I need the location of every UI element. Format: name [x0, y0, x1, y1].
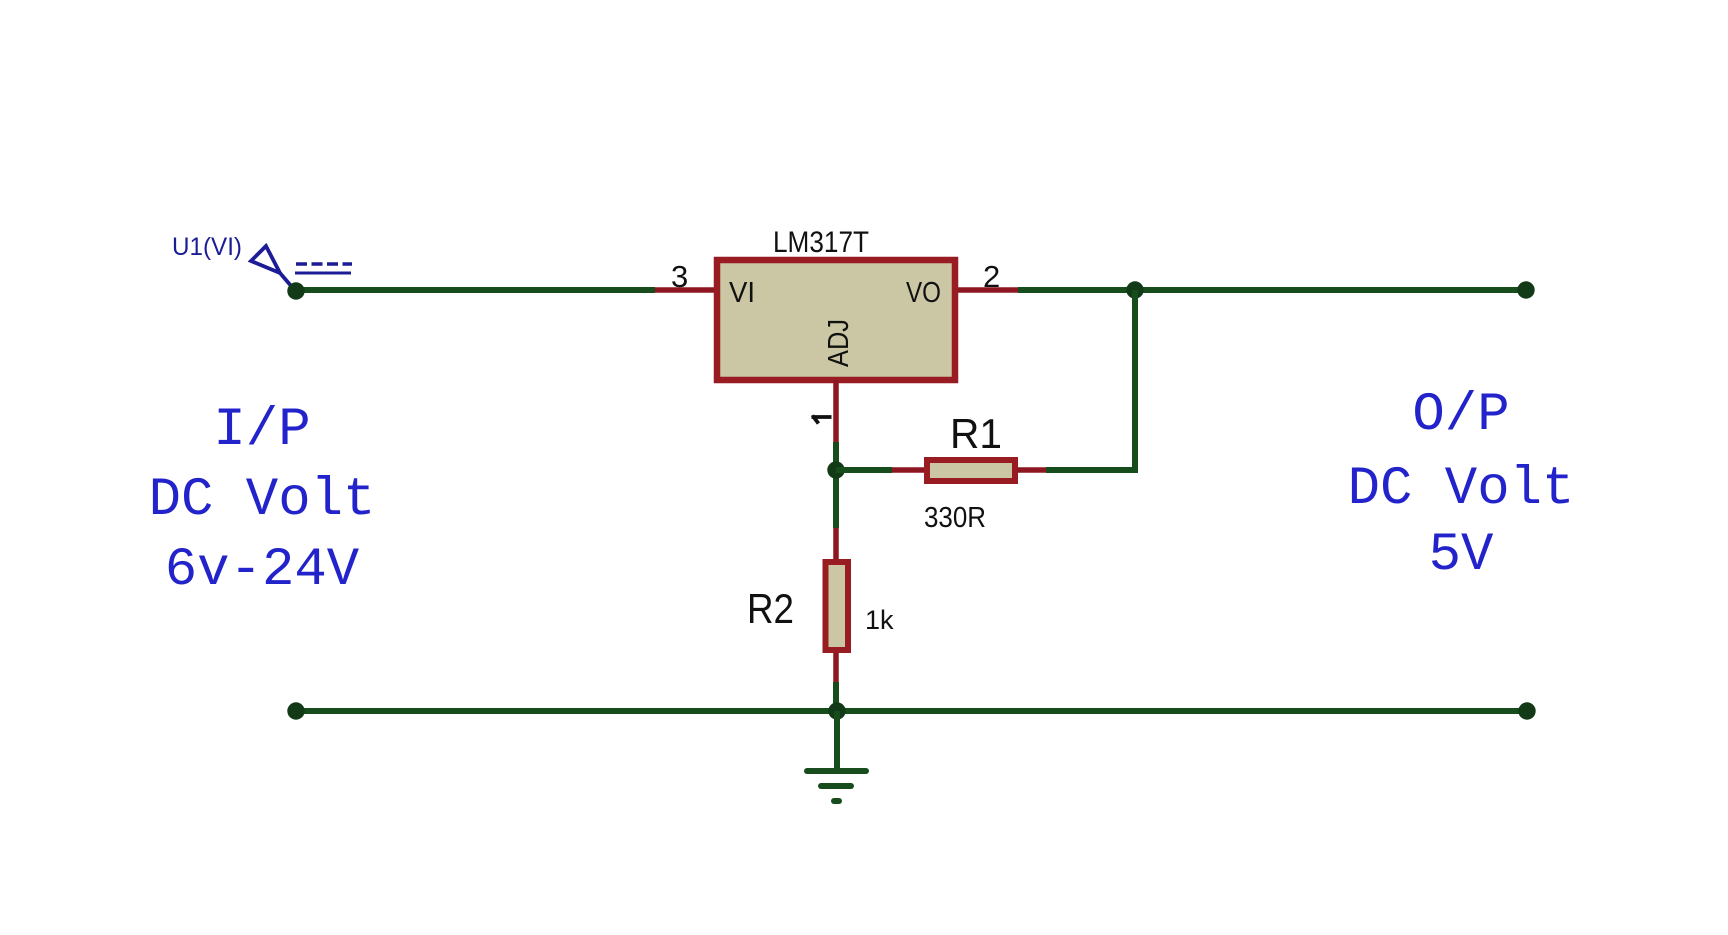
- pin: R2 top stub: [833, 528, 839, 562]
- svg-text:R2: R2: [747, 585, 794, 632]
- dc source symbol solid line: [295, 272, 351, 275]
- ground symbol: [807, 711, 866, 801]
- dc source symbol dashed line: [296, 262, 352, 265]
- pin number 1 (rotated): [812, 416, 832, 424]
- pin 1 ADJ stub: [833, 380, 839, 442]
- svg-text:VI: VI: [729, 277, 755, 309]
- resistor R1 right pin: [1017, 467, 1046, 473]
- pin: R2 bottom stub: [833, 653, 839, 682]
- node: bottom-right terminal dot: [1518, 702, 1535, 719]
- node: input terminal dot: [287, 282, 304, 299]
- svg-text:2: 2: [983, 259, 1000, 294]
- pin 3 stub: [655, 287, 714, 293]
- node: junction at VO column: [1126, 281, 1143, 298]
- svg-text:LM317T: LM317T: [773, 226, 869, 259]
- pin 2 stub: [958, 287, 1018, 293]
- wire: top rail right: [1018, 287, 1526, 293]
- node: ADJ junction dot: [827, 461, 844, 478]
- node: bottom-left terminal dot: [287, 702, 304, 719]
- probe U1 arrow: [251, 246, 292, 287]
- wire: bottom ground rail: [296, 708, 1527, 714]
- svg-text:VO: VO: [906, 277, 941, 309]
- svg-text:O/P: O/P: [1412, 385, 1509, 446]
- svg-text:5V: 5V: [1429, 525, 1494, 586]
- resistor R1 left pin: [892, 467, 925, 473]
- svg-text:1k: 1k: [865, 605, 894, 635]
- resistor R2 body: [826, 562, 849, 650]
- regulator U1 LM317T body: [717, 260, 955, 380]
- svg-text:ADJ: ADJ: [823, 319, 855, 367]
- wire: R2 to ground rail: [833, 682, 839, 711]
- resistor R1 body: [927, 460, 1015, 481]
- svg-text:DC Volt: DC Volt: [1348, 459, 1575, 520]
- wire: ADJ junction to R1 left pin: [836, 467, 892, 473]
- svg-text:330R: 330R: [924, 502, 986, 534]
- svg-text:6v-24V: 6v-24V: [165, 540, 360, 601]
- svg-text:R1: R1: [950, 410, 1002, 457]
- node: output terminal dot: [1517, 281, 1534, 298]
- node: ground junction dot: [828, 702, 845, 719]
- wire: ADJ node vertical: [833, 442, 839, 528]
- svg-text:3: 3: [671, 259, 688, 294]
- svg-text:DC Volt: DC Volt: [149, 470, 376, 531]
- svg-text:U1(VI): U1(VI): [172, 233, 242, 261]
- wire: feedback from VO down to R1: [1046, 290, 1135, 470]
- wire: top rail left (input to pin 3): [296, 287, 655, 293]
- svg-text:I/P: I/P: [213, 400, 310, 461]
